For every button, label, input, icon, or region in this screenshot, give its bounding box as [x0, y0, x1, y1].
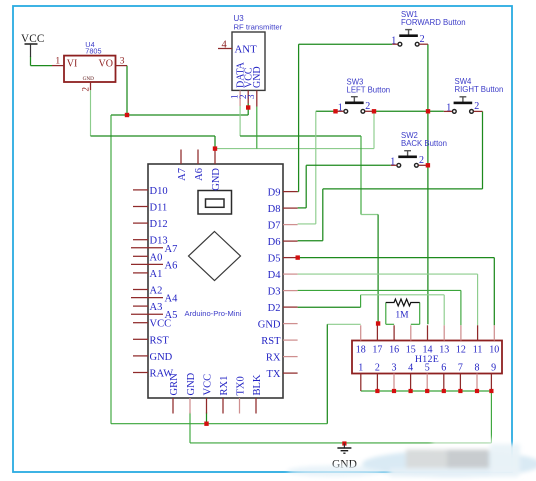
svg-text:D11: D11: [150, 203, 168, 214]
svg-text:VI: VI: [67, 59, 78, 70]
svg-text:LEFT Button: LEFT Button: [347, 86, 391, 95]
svg-text:2: 2: [81, 87, 91, 92]
svg-text:A2: A2: [150, 286, 163, 297]
svg-text:RST: RST: [261, 336, 281, 347]
svg-text:4: 4: [408, 362, 413, 373]
svg-text:5: 5: [425, 362, 430, 373]
svg-text:RST: RST: [150, 335, 170, 346]
svg-text:D7: D7: [268, 221, 281, 232]
svg-text:BLK: BLK: [252, 374, 263, 395]
svg-text:ANT: ANT: [235, 44, 258, 56]
svg-text:RF transmitter: RF transmitter: [234, 23, 283, 32]
svg-text:A4: A4: [165, 294, 179, 305]
svg-text:GND: GND: [211, 168, 222, 191]
svg-text:RIGHT Button: RIGHT Button: [455, 85, 504, 94]
svg-text:10: 10: [489, 344, 499, 355]
svg-text:D4: D4: [268, 270, 282, 281]
svg-text:2: 2: [420, 34, 425, 45]
svg-text:D5: D5: [268, 254, 281, 265]
svg-text:GND: GND: [150, 352, 173, 363]
svg-text:1: 1: [358, 362, 363, 373]
svg-text:A7: A7: [165, 244, 178, 255]
svg-text:A5: A5: [165, 310, 178, 321]
svg-text:9: 9: [491, 362, 496, 373]
svg-text:VO: VO: [99, 59, 113, 70]
svg-text:D8: D8: [268, 204, 281, 215]
svg-text:2: 2: [419, 155, 424, 166]
svg-text:TX: TX: [267, 369, 281, 380]
svg-text:BACK Button: BACK Button: [401, 139, 447, 148]
svg-text:A7: A7: [177, 168, 188, 181]
svg-text:16: 16: [389, 344, 399, 355]
svg-text:1: 1: [391, 36, 396, 47]
svg-text:Arduino-Pro-Mini: Arduino-Pro-Mini: [185, 309, 242, 318]
svg-text:8: 8: [475, 362, 480, 373]
svg-text:3: 3: [392, 362, 397, 373]
svg-text:18: 18: [356, 344, 366, 355]
svg-text:TX0: TX0: [235, 376, 246, 395]
svg-text:VCC: VCC: [202, 374, 213, 396]
svg-text:A6: A6: [194, 168, 205, 181]
svg-text:6: 6: [441, 362, 446, 373]
svg-text:RX: RX: [266, 353, 281, 364]
svg-text:1: 1: [55, 56, 60, 66]
svg-text:GND: GND: [186, 372, 197, 395]
svg-text:1: 1: [446, 102, 451, 113]
svg-text:FORWARD Button: FORWARD Button: [401, 18, 466, 27]
svg-text:D12: D12: [150, 219, 168, 230]
svg-text:GND: GND: [252, 66, 263, 88]
svg-text:12: 12: [456, 344, 466, 355]
svg-text:2: 2: [365, 101, 370, 112]
svg-text:GRN: GRN: [169, 373, 180, 396]
svg-text:2: 2: [375, 362, 380, 373]
svg-text:2: 2: [474, 101, 479, 112]
svg-text:D10: D10: [150, 186, 168, 197]
svg-text:GND: GND: [83, 76, 94, 82]
svg-text:7805: 7805: [85, 47, 101, 56]
svg-text:D3: D3: [268, 287, 281, 298]
svg-text:A6: A6: [165, 260, 178, 271]
svg-text:1: 1: [390, 157, 395, 168]
svg-text:A1: A1: [150, 269, 163, 280]
svg-text:D6: D6: [268, 237, 281, 248]
svg-text:D9: D9: [268, 188, 281, 199]
svg-text:13: 13: [439, 344, 449, 355]
svg-text:3: 3: [246, 94, 256, 99]
svg-text:RX1: RX1: [219, 376, 230, 396]
svg-text:1M: 1M: [395, 311, 409, 321]
svg-text:11: 11: [473, 344, 483, 355]
svg-text:VCC: VCC: [21, 33, 44, 45]
svg-text:17: 17: [372, 344, 382, 355]
svg-text:D2: D2: [268, 303, 281, 314]
svg-text:1: 1: [338, 102, 343, 113]
svg-text:3: 3: [120, 56, 125, 66]
svg-text:A3: A3: [150, 302, 163, 313]
svg-text:A0: A0: [150, 252, 163, 263]
svg-text:GND: GND: [258, 320, 281, 331]
svg-text:7: 7: [458, 362, 463, 373]
